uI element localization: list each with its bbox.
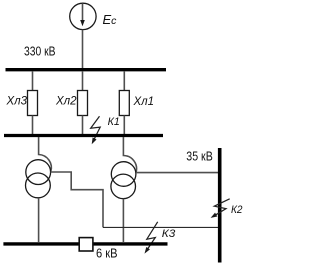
- transformer T2 upper winding: [111, 162, 136, 187]
- reactor Хл2: [78, 91, 88, 116]
- source Ec arrow: [82, 3, 84, 20]
- transformer T1 HV lead with arc: [39, 137, 52, 172]
- fault K3 arrow: [147, 222, 158, 249]
- wire source to 330kV bus: [82, 30, 84, 69]
- reactor Хл1: [119, 91, 129, 116]
- svg-text:Хл2: Хл2: [55, 96, 77, 108]
- svg-text:К3: К3: [162, 228, 176, 240]
- tie wire 35kV to 6kV side: [103, 226, 218, 228]
- wire bus330 to reactor Хл3: [32, 71, 34, 91]
- svg-text:Хл3: Хл3: [6, 96, 28, 108]
- fault K1 arrow: [91, 116, 101, 139]
- wire reactor Хл2 to bus2: [82, 116, 84, 136]
- fault K2 arrow: [214, 199, 229, 215]
- svg-text:Хл1: Хл1: [133, 96, 155, 108]
- svg-text:К2: К2: [231, 204, 243, 216]
- source Ec circle: [70, 3, 96, 29]
- wire bus330 to reactor Хл1: [123, 71, 125, 91]
- wire reactor Хл3 to bus2: [32, 116, 34, 136]
- bus 35 kV: [218, 148, 222, 263]
- svg-text:6 кВ: 6 кВ: [96, 246, 118, 260]
- 6kV series reactor box: [79, 238, 93, 251]
- wire T2 to 6kV bus: [122, 199, 124, 242]
- transformer T2 HV lead with arc: [123, 137, 136, 172]
- wire T2 to 35kV bus: [136, 172, 218, 174]
- wire T1 to 6kV bus: [38, 198, 40, 242]
- svg-text:35 кВ: 35 кВ: [186, 149, 213, 163]
- bus 6 kV: [3, 242, 167, 245]
- svg-text:Ec: Ec: [103, 12, 118, 27]
- wire bus330 to reactor Хл2: [82, 71, 84, 91]
- wire reactor Хл1 to bus2: [123, 116, 125, 136]
- wire T1 MV tap step to tie line: [51, 172, 103, 227]
- transformer T1 upper winding: [26, 160, 51, 185]
- svg-text:330 кВ: 330 кВ: [24, 44, 56, 58]
- bus 330 kV: [6, 68, 167, 71]
- reactor Хл3: [28, 91, 38, 116]
- transformer T1 lower winding: [26, 173, 51, 198]
- svg-text:К1: К1: [108, 116, 120, 128]
- transformer T2 lower winding: [111, 174, 136, 199]
- bus 2 (transformer HV side): [4, 134, 163, 137]
